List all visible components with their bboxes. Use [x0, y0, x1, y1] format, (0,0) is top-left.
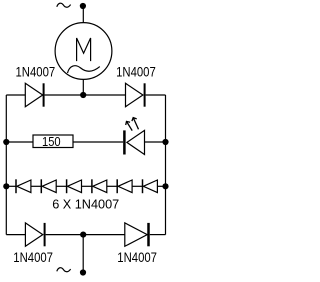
diode D5 bar [40, 179, 42, 193]
diode D4 bar [15, 179, 17, 193]
LED D3 arrow 1 [126, 121, 133, 130]
node right rail row3 junction [162, 183, 168, 189]
diode D7 triangle [93, 180, 107, 193]
wire D5-D6 [56, 185, 66, 187]
diode D4 triangle [17, 180, 31, 193]
diode D1 cathode bar [43, 83, 45, 106]
node bottom rail center junction [80, 232, 86, 238]
wire bottom AC stub [82, 235, 84, 273]
wire bottom rail right segment [150, 234, 166, 236]
node right rail row2 junction [162, 139, 168, 145]
motor tilde [68, 66, 100, 73]
diode D2 cathode bar [144, 83, 146, 106]
diode D10 cathode bar [44, 223, 46, 246]
diode D10 1N4007 bottom-left triangle [25, 223, 42, 246]
motor M1 circle [55, 23, 112, 80]
AC source top tilde [57, 3, 71, 7]
diode D1 1N4007 top-left triangle [25, 83, 42, 106]
diode D8 triangle [118, 180, 132, 193]
wire D8-D9 [132, 185, 142, 187]
svg-text:1N4007: 1N4007 [117, 250, 157, 265]
wire motor bottom to top rail [82, 79, 84, 95]
svg-text:6 X 1N4007: 6 X 1N4007 [52, 198, 119, 212]
diode D5 triangle [42, 180, 56, 193]
svg-text:1N4007: 1N4007 [116, 64, 156, 79]
wire row2 to resistor [6, 141, 33, 143]
svg-text:1N4007: 1N4007 [13, 250, 53, 265]
wire D7-D8 [107, 185, 117, 187]
diode D2 1N4007 top-right triangle [126, 83, 143, 106]
wire bottom rail middle segment [46, 234, 125, 236]
wire bottom rail left segment [6, 234, 25, 236]
wire top rail right segment [146, 94, 166, 96]
wire top rail left segment [6, 94, 25, 96]
LED D3 arrow 2 [132, 118, 139, 130]
motor letter M [77, 38, 91, 61]
wire top rail middle segment [45, 94, 126, 96]
wire row3 lead-in [6, 185, 16, 187]
AC source bottom tilde [57, 268, 71, 272]
diode D11 cathode bar [147, 223, 150, 246]
diode D7 bar [91, 179, 93, 193]
diode D9 triangle [143, 180, 157, 193]
node left rail row3 junction [3, 183, 9, 189]
wire right rail [165, 95, 167, 235]
node left rail row2 junction [3, 139, 9, 145]
wire D4-D5 [31, 185, 41, 187]
diode D11 1N4007 bottom-right triangle [125, 223, 147, 246]
LED D3 triangle [127, 130, 145, 154]
wire row3 lead-out [157, 185, 165, 187]
node bottom AC terminal (junction dot) [80, 269, 86, 275]
LED D3 cathode bar [123, 130, 126, 154]
wire resistor to LED [73, 141, 123, 143]
diode D8 bar [116, 179, 118, 193]
node top rail center junction [80, 92, 86, 98]
wire D6-D7 [82, 185, 92, 187]
wire LED to right rail [145, 141, 166, 143]
wire top stub from AC dot to motor [82, 6, 84, 23]
svg-text:1N4007: 1N4007 [16, 64, 56, 79]
node top AC terminal (junction dot) [80, 3, 86, 9]
svg-text:150: 150 [42, 134, 61, 149]
wire left rail [5, 95, 7, 235]
diode D9 bar [142, 179, 144, 193]
diode D6 triangle [67, 180, 81, 193]
diode D6 bar [66, 179, 68, 193]
resistor R1 box [33, 135, 73, 148]
